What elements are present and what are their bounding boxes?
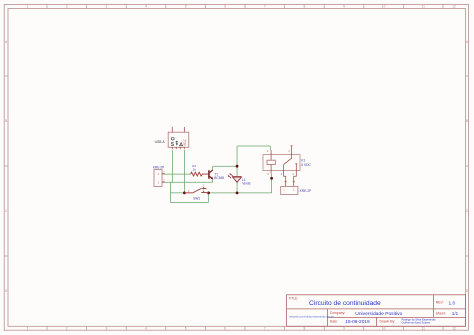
svg-text:4: 4 [280, 172, 282, 176]
svg-text:TITLE:: TITLE: [289, 296, 299, 300]
svg-text:5: 5 [185, 326, 187, 330]
svg-text:Company:: Company: [330, 311, 346, 315]
svg-text:D: D [5, 289, 8, 293]
svg-text:SW1: SW1 [193, 196, 200, 200]
svg-text:Sheet:: Sheet: [436, 312, 446, 316]
svg-text:1: 1 [27, 5, 29, 9]
svg-text:Verde: Verde [242, 182, 251, 186]
svg-text:10: 10 [382, 5, 386, 9]
svg-text:4: 4 [145, 5, 147, 9]
svg-text:2: 2 [158, 180, 160, 184]
svg-text:Drawn By:: Drawn By: [380, 319, 396, 323]
svg-text:3: 3 [106, 5, 108, 9]
svg-text:2: 2 [267, 172, 269, 176]
svg-text:3: 3 [292, 172, 294, 176]
svg-text:B: B [5, 119, 7, 123]
svg-text:3: 3 [106, 326, 108, 330]
svg-text:C: C [5, 209, 8, 213]
svg-text:Date:: Date: [330, 319, 338, 323]
svg-text:Circuito de continuidade: Circuito de continuidade [309, 300, 381, 307]
svg-text:10: 10 [382, 326, 386, 330]
svg-text:KRE-2P: KRE-2P [300, 189, 312, 193]
svg-text:4: 4 [288, 149, 290, 153]
svg-text:BC548: BC548 [214, 176, 224, 180]
svg-text:12: 12 [452, 5, 456, 9]
svg-text:11: 11 [422, 5, 426, 9]
svg-text:15-06-2019: 15-06-2019 [345, 319, 370, 325]
svg-text:1/1: 1/1 [452, 311, 459, 316]
svg-text:B: B [466, 119, 468, 123]
svg-text:2: 2 [66, 5, 68, 9]
svg-text:7: 7 [264, 326, 266, 330]
svg-text:easyeda.com/rodrigo.esperandio: easyeda.com/rodrigo.esperandio.circuito [289, 315, 335, 318]
svg-text:7: 7 [264, 5, 266, 9]
svg-text:2: 2 [66, 326, 68, 330]
svg-text:8: 8 [304, 5, 306, 9]
svg-text:9: 9 [343, 326, 345, 330]
svg-text:3: 3 [267, 149, 269, 153]
svg-text:6: 6 [224, 326, 226, 330]
svg-text:11: 11 [422, 326, 426, 330]
svg-text:KRE-2P: KRE-2P [153, 166, 165, 170]
svg-text:5: 5 [185, 5, 187, 9]
svg-text:5 VDC: 5 VDC [301, 163, 311, 167]
svg-text:1: 1 [27, 326, 29, 330]
svg-text:6: 6 [224, 5, 226, 9]
svg-text:USB A: USB A [155, 140, 166, 144]
svg-text:1: 1 [283, 187, 285, 191]
svg-text:1k: 1k [193, 168, 197, 172]
svg-text:12: 12 [452, 326, 456, 330]
svg-text:9: 9 [343, 5, 345, 9]
svg-text:2: 2 [293, 187, 295, 191]
svg-text:8: 8 [304, 326, 306, 330]
svg-text:VCC: VCC [183, 138, 187, 146]
svg-text:1.0: 1.0 [449, 300, 456, 306]
svg-text:Guilherme Kava Soares: Guilherme Kava Soares [402, 321, 431, 325]
svg-text:Universidade Positivo: Universidade Positivo [355, 311, 402, 317]
svg-text:1: 1 [158, 172, 160, 176]
svg-text:REV:: REV: [436, 301, 444, 305]
svg-text:2: 2 [203, 184, 205, 188]
svg-text:4: 4 [145, 326, 147, 330]
svg-text:1: 1 [188, 189, 190, 193]
